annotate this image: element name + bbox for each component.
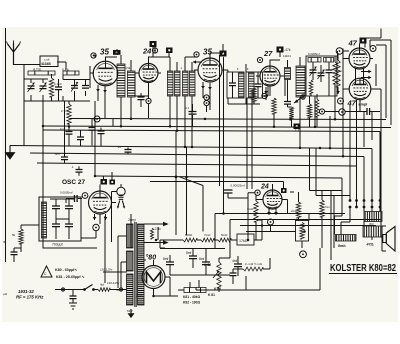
wire	[14, 64, 25, 66]
svg-text:0.1: 0.1	[185, 106, 190, 110]
power transformer T1 primary3	[127, 274, 134, 305]
terminal square	[294, 124, 301, 130]
capacitor C21	[52, 206, 60, 209]
svg-text:24: 24	[142, 47, 152, 56]
svg-text:½m: ½m	[325, 205, 331, 209]
coil L0	[28, 71, 55, 75]
tube V3 (type 35)	[198, 58, 222, 82]
terminal	[336, 48, 343, 55]
tube V4 (type 27)	[260, 66, 280, 86]
resistor R15	[201, 238, 214, 242]
capacitor C20	[75, 195, 78, 202]
wire	[310, 148, 351, 196]
pot arrow	[213, 271, 219, 278]
svg-text:110-125v: 110-125v	[100, 268, 113, 272]
ground G2	[69, 303, 77, 309]
junction	[342, 155, 345, 158]
socket terminal	[355, 206, 358, 209]
resistor R19	[254, 201, 258, 222]
wire	[43, 241, 97, 248]
wire	[342, 49, 344, 157]
junction	[303, 230, 306, 233]
terminal square	[220, 51, 227, 57]
svg-text:4.5k: 4.5k	[125, 66, 131, 70]
resistor R2	[272, 98, 276, 114]
wire	[303, 96, 310, 127]
variable capacitor C12	[318, 73, 325, 76]
wire	[246, 98, 248, 189]
cathode arrow	[208, 83, 212, 90]
bus wire	[10, 146, 372, 212]
resistor R21	[320, 200, 324, 217]
junction	[94, 175, 97, 178]
coil L2c	[183, 71, 189, 96]
wire	[100, 185, 116, 225]
tube V6 (type 47)	[349, 78, 371, 100]
svg-text:4μf: 4μf	[100, 283, 104, 287]
ground G4	[128, 309, 135, 318]
tube V2 (type 24)	[139, 64, 158, 83]
tube V1 (type 35)	[93, 61, 118, 86]
filter box	[306, 56, 337, 96]
wire	[251, 98, 253, 189]
power transformer T1 primary	[127, 224, 134, 248]
junction	[155, 239, 158, 242]
resistor R20b	[300, 223, 304, 240]
pilot lamp	[117, 187, 125, 208]
svg-text:2.4v: 2.4v	[154, 227, 162, 231]
wire	[55, 289, 127, 291]
junction	[299, 147, 302, 150]
svg-text:RF = 175 KHz: RF = 175 KHz	[16, 295, 44, 300]
svg-text:8mh.: 8mh.	[338, 244, 346, 248]
wire	[256, 76, 285, 100]
bus wire	[150, 181, 221, 183]
junction	[152, 295, 155, 298]
wire	[135, 93, 149, 107]
terminal	[119, 288, 122, 291]
terminal square	[281, 188, 287, 193]
wire	[57, 62, 66, 101]
svg-text:8mf: 8mf	[163, 257, 168, 261]
bus wire	[30, 153, 364, 212]
terminal	[91, 53, 96, 58]
wire	[331, 191, 334, 261]
junction	[120, 125, 123, 128]
terminal square	[110, 180, 116, 185]
svg-text:°80: °80	[146, 254, 157, 262]
wire	[135, 73, 161, 96]
wire	[142, 260, 170, 296]
terminal	[152, 48, 157, 53]
svg-text:8mf: 8mf	[199, 257, 204, 261]
wire	[314, 96, 316, 127]
wire	[90, 66, 105, 118]
terminal	[82, 193, 88, 199]
capacitor C7	[138, 97, 145, 100]
wire	[246, 192, 299, 232]
socket terminal	[363, 206, 366, 209]
wire	[256, 200, 288, 232]
antenna	[7, 41, 21, 66]
bus wire	[70, 119, 386, 120]
arrow	[294, 95, 305, 103]
capacitor C13	[326, 70, 333, 73]
capacitor C5	[82, 86, 89, 89]
junction	[261, 224, 264, 227]
svg-text:300v: 300v	[116, 288, 123, 292]
wire	[94, 55, 96, 176]
coil L6	[324, 58, 334, 63]
svg-text:2mΩ: 2mΩ	[291, 209, 298, 213]
grid arrow	[193, 60, 202, 64]
wire	[66, 199, 82, 204]
capacitor C3	[55, 87, 62, 90]
wire	[228, 64, 260, 104]
wire	[81, 216, 105, 283]
wire V2 top cap	[149, 47, 170, 64]
wire	[313, 62, 329, 82]
wire	[301, 241, 303, 248]
junction	[204, 118, 207, 121]
tube V7 (OSC 27)	[89, 191, 112, 214]
terminal square	[277, 47, 284, 53]
socket terminal	[349, 199, 352, 202]
wire	[180, 248, 230, 275]
wire	[148, 96, 150, 118]
svg-text:¼ mΩ ½ mΩ: ¼ mΩ ½ mΩ	[245, 262, 263, 266]
svg-text:7mΩ: 7mΩ	[204, 233, 211, 237]
wire V4 top cap	[270, 53, 280, 67]
junction	[273, 125, 276, 128]
terminal	[300, 251, 307, 258]
wire	[192, 104, 194, 127]
svg-text:K82 - 190Ω: K82 - 190Ω	[183, 301, 200, 305]
socket terminal	[349, 206, 352, 209]
AF choke L4	[296, 66, 305, 97]
wire	[380, 226, 386, 251]
svg-text:47: 47	[348, 39, 358, 48]
junction	[68, 125, 71, 128]
bus wire	[215, 214, 381, 226]
wire	[299, 110, 301, 148]
wire V5 top	[343, 44, 360, 52]
wire	[24, 64, 40, 66]
wire	[232, 269, 234, 284]
resistor R7	[307, 104, 311, 118]
wire	[325, 112, 381, 148]
socket terminal	[355, 199, 358, 202]
terminal	[319, 109, 324, 114]
coil L2d	[190, 71, 196, 96]
tuned circuit box T4	[246, 72, 263, 98]
wire	[176, 131, 187, 236]
svg-text:17kΩ: 17kΩ	[239, 239, 248, 243]
wire	[196, 248, 320, 290]
wire	[228, 193, 248, 198]
wire	[80, 130, 82, 146]
capacitor C19	[125, 150, 132, 153]
cathode arrow	[274, 209, 278, 215]
capacitor C28 (8mf)	[166, 262, 174, 265]
terminal	[194, 52, 199, 57]
junction	[247, 239, 250, 242]
wire V3 top cap	[210, 44, 223, 59]
junction	[334, 118, 337, 121]
svg-text:0.1mf: 0.1mf	[54, 82, 62, 86]
capacitor C15	[66, 132, 73, 135]
capacitor C26	[70, 296, 77, 299]
svg-text:μμμ: μμμ	[369, 222, 374, 226]
wire	[185, 57, 198, 147]
tube V8 (type 24 det)	[263, 190, 282, 209]
coil L2a (IF2 primary)	[168, 71, 174, 96]
resistor R5	[309, 80, 313, 94]
wire	[254, 220, 262, 240]
coil L3	[285, 68, 291, 80]
svg-text:OSC 27: OSC 27	[62, 179, 86, 186]
capacitor C33	[224, 190, 233, 193]
variable capacitor C2	[40, 86, 47, 89]
wire	[233, 258, 270, 269]
wire	[68, 135, 70, 146]
terminal	[94, 116, 100, 122]
cathode arrow	[201, 82, 205, 89]
ground arrow	[336, 87, 340, 94]
wire	[257, 72, 259, 98]
capacitor C10	[255, 84, 262, 87]
terminal	[370, 46, 376, 52]
svg-text:5k: 5k	[12, 233, 16, 237]
arrow	[361, 76, 372, 79]
wire	[237, 256, 239, 276]
wire	[68, 101, 70, 132]
bus wire	[37, 163, 357, 207]
svg-text:11101: 11101	[283, 54, 291, 58]
resistor R4	[252, 88, 256, 102]
terminal	[268, 219, 274, 225]
coil L1a (IF1 primary)	[117, 64, 125, 97]
junction	[176, 129, 179, 132]
variable capacitor C4	[71, 86, 78, 89]
wire	[262, 86, 268, 96]
junction	[319, 147, 322, 150]
cathode arrow	[104, 214, 108, 220]
wire	[14, 248, 21, 262]
wire	[170, 57, 177, 131]
svg-text:4134B: 4134B	[41, 62, 51, 66]
resistor box 17k	[237, 234, 254, 245]
capacitor C15b	[89, 128, 96, 131]
oscillator coil box	[39, 197, 81, 241]
wire	[130, 214, 132, 248]
junction	[185, 176, 188, 179]
terminal	[146, 98, 151, 103]
capacitor C25	[11, 252, 18, 255]
wire	[78, 166, 80, 175]
coil L1b (IF1 secondary)	[128, 71, 136, 97]
wire	[343, 59, 373, 86]
bus wire	[23, 101, 25, 146]
wire	[273, 114, 275, 127]
svg-text:K 81: K 81	[208, 293, 215, 297]
resistor R6	[315, 99, 319, 117]
capacitor C30 (8mf)	[202, 262, 210, 265]
wire	[51, 74, 53, 101]
wire	[63, 75, 90, 102]
svg-text:2amp: 2amp	[128, 218, 136, 222]
capacitor C35	[284, 102, 291, 105]
wire	[311, 80, 329, 127]
wire	[258, 219, 262, 221]
capacitor C16b	[98, 131, 105, 134]
terminal	[255, 190, 260, 195]
wire	[154, 277, 171, 296]
arrow	[150, 222, 168, 225]
voltage divider R17	[184, 288, 206, 293]
arrow	[361, 70, 372, 73]
terminal square	[113, 50, 121, 55]
svg-text:.5mf: .5mf	[54, 152, 60, 156]
tube V5 (type 47)	[349, 48, 370, 69]
diagonal wire	[179, 177, 203, 232]
resistor R10	[67, 104, 71, 124]
wire	[144, 224, 150, 260]
svg-text:K80 - 60μμf∿: K80 - 60μμf∿	[55, 268, 78, 272]
wire	[308, 214, 310, 221]
wire	[220, 55, 224, 214]
wire	[248, 193, 256, 240]
wire	[194, 70, 228, 110]
svg-text:53/7: 53/7	[127, 309, 133, 313]
wire	[219, 258, 230, 292]
wire	[153, 47, 170, 57]
wire	[245, 276, 247, 290]
svg-text:47: 47	[347, 99, 357, 108]
wire	[112, 184, 122, 242]
wire V8 top	[221, 182, 284, 191]
wire	[127, 147, 129, 154]
resistor box K83	[296, 221, 309, 242]
terminal	[257, 57, 262, 62]
wire V1 top cap	[106, 49, 118, 62]
socket terminal	[371, 206, 374, 209]
capacitor C23	[52, 224, 60, 227]
wire	[337, 53, 339, 60]
wire	[154, 280, 219, 296]
terminal	[301, 95, 305, 99]
trimmer triangle	[41, 266, 52, 277]
wire	[112, 119, 114, 127]
wire	[284, 80, 286, 97]
svg-text:8mf: 8mf	[186, 251, 191, 255]
svg-text:231v: 231v	[136, 294, 143, 298]
junction	[175, 176, 178, 179]
coil L5	[308, 58, 321, 63]
junction	[130, 117, 133, 120]
socket terminal	[379, 199, 382, 202]
wire	[157, 227, 159, 240]
wire	[329, 116, 331, 148]
speaker	[383, 227, 395, 252]
junction	[175, 175, 178, 178]
svg-text:3k: 3k	[3, 240, 7, 244]
capacitor C22	[65, 206, 73, 209]
terminal square	[150, 41, 157, 47]
wire	[100, 128, 102, 146]
junction	[191, 146, 194, 149]
resistor R1	[49, 78, 53, 97]
wire	[253, 102, 255, 104]
svg-text:0.0005mf: 0.0005mf	[308, 52, 320, 56]
wire	[104, 172, 113, 180]
resistor R20	[296, 202, 300, 218]
cathode arrow	[267, 209, 271, 215]
transformer core	[135, 222, 136, 307]
bus wire	[43, 130, 380, 212]
power switch S1	[83, 285, 95, 291]
wire	[160, 240, 237, 248]
terminal	[339, 109, 345, 115]
ground G1	[5, 146, 16, 160]
terminal square	[166, 48, 173, 54]
junction	[42, 125, 45, 128]
svg-text:K 82: K 82	[204, 263, 211, 267]
svg-text:35: 35	[100, 48, 109, 57]
svg-text:KOLSTER K80=82: KOLSTER K80=82	[330, 262, 396, 274]
resistor R18	[243, 267, 263, 271]
wire	[299, 57, 301, 110]
potentiometer K82	[217, 262, 221, 288]
resistor R3	[289, 107, 293, 120]
tuned circuit box T3	[227, 72, 244, 98]
cathode arrow	[264, 87, 268, 94]
bus wire	[43, 126, 391, 128]
terminal	[262, 93, 267, 98]
wire	[50, 199, 75, 239]
resistor R14	[183, 238, 197, 242]
tube V9 (type 80 rectifier)	[142, 266, 165, 289]
svg-text:-47k: -47k	[284, 48, 291, 52]
terminal	[204, 95, 209, 100]
svg-text:0.00025mf: 0.00025mf	[231, 184, 245, 188]
wire	[232, 72, 234, 98]
wire	[321, 190, 323, 248]
wire right edge	[365, 29, 391, 126]
antenna coupling coil box	[40, 56, 58, 67]
wire	[337, 51, 339, 56]
resistor R16	[218, 238, 231, 242]
wire	[343, 89, 376, 112]
resistor R9	[336, 60, 340, 87]
wire	[72, 290, 74, 304]
svg-text:.1: .1	[71, 165, 74, 169]
capacitor C16	[77, 137, 84, 140]
svg-text:35: 35	[203, 48, 212, 57]
terminal	[93, 224, 99, 230]
cathode arrow	[103, 86, 107, 93]
terminal	[61, 288, 64, 291]
svg-text:5mΩ: 5mΩ	[221, 233, 228, 237]
capacitor C18	[76, 170, 83, 173]
wire	[288, 88, 292, 127]
resistor R8	[333, 62, 337, 84]
border line	[5, 28, 7, 262]
junction	[314, 126, 317, 128]
coil L2b	[175, 71, 181, 96]
wire	[160, 249, 225, 276]
wire	[91, 119, 93, 146]
